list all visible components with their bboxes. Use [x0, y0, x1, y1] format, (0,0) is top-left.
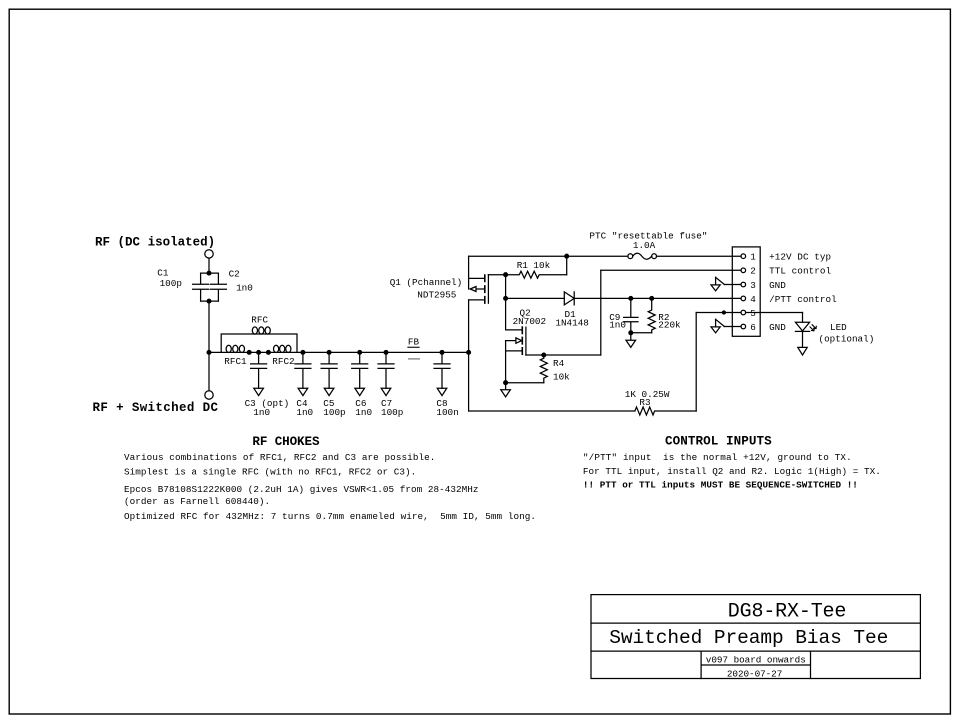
junction ground node Q2: [504, 381, 508, 385]
svg-text:Various combinations of RFC1,: Various combinations of RFC1, RFC2 and C…: [124, 452, 435, 463]
svg-text:RFC: RFC: [251, 315, 268, 326]
capacitor C4: [295, 352, 311, 388]
svg-text:2N7002: 2N7002: [513, 316, 546, 327]
junction R2 tap: [650, 297, 654, 301]
resistor R2: [648, 298, 655, 332]
svg-text:(order as Farnell 608440).: (order as Farnell 608440).: [124, 496, 270, 507]
svg-text:100p: 100p: [323, 407, 345, 418]
svg-text:"/PTT" input is the normal +1: "/PTT" input is the normal +12V, ground …: [583, 452, 852, 463]
svg-text:3: 3: [750, 280, 756, 291]
wire D1 cathode to pin 4: [574, 297, 741, 299]
junction R4 top: [542, 353, 546, 357]
wire pin2 vertical to Q2 gate: [600, 270, 602, 355]
ground C3: [254, 388, 264, 395]
ground C4: [298, 388, 308, 395]
svg-text:!! PTT or TTL inputs MUST BE S: !! PTT or TTL inputs MUST BE SEQUENCE-SW…: [583, 480, 858, 491]
svg-text:R3: R3: [639, 397, 650, 408]
svg-text:v097 board onwards: v097 board onwards: [706, 655, 806, 666]
svg-text:C2: C2: [229, 269, 240, 280]
pin 1: [741, 254, 746, 259]
junction pin 5 wire: [722, 311, 725, 314]
wire PTC to pin 1: [657, 255, 742, 257]
title block outer: [591, 595, 920, 679]
resistor R3: [635, 407, 696, 415]
svg-text:R4: R4: [553, 358, 565, 369]
junction C9 tap: [629, 297, 633, 301]
wire down to RF+DC terminal: [208, 301, 210, 391]
wire Q1 drain down to bus and bottom rail: [468, 300, 470, 411]
junction RFC1 right: [247, 351, 251, 355]
node bottom of C1/C2: [207, 299, 211, 303]
wire Q1 gate rail: [488, 274, 505, 276]
svg-text:1n0: 1n0: [609, 320, 626, 331]
junction RFC2 left: [267, 351, 271, 355]
inductor RFC2: [274, 345, 279, 352]
svg-text:10k: 10k: [553, 372, 570, 383]
wire pin 3 to ground: [724, 284, 741, 286]
inductor RFC: [252, 327, 257, 334]
capacitor C1: [193, 273, 209, 301]
junction C5 tap: [327, 351, 331, 355]
ground C8: [437, 388, 447, 395]
svg-text:1n0: 1n0: [355, 407, 372, 418]
LED (optional): [802, 313, 804, 323]
svg-text:1n0: 1n0: [296, 407, 313, 418]
svg-text:C1: C1: [157, 268, 169, 279]
LED arrows: [810, 327, 814, 331]
svg-text:TTL control: TTL control: [769, 266, 831, 277]
junction gate node top: [504, 273, 508, 277]
junction bus left: [207, 351, 211, 355]
svg-text:100p: 100p: [160, 278, 182, 289]
inductor RFC1: [226, 345, 231, 352]
title block inner cell: [701, 651, 810, 678]
svg-text:Optimized RFC for 432MHz: 7 tu: Optimized RFC for 432MHz: 7 turns 0.7mm …: [124, 511, 536, 522]
svg-text:+12V DC typ: +12V DC typ: [769, 252, 831, 263]
wire RFC bypass bracket: [221, 334, 297, 352]
title block divider 1: [591, 622, 920, 624]
pin 4: [741, 296, 746, 301]
svg-text:220k: 220k: [658, 319, 681, 330]
svg-text:RFC1: RFC1: [224, 356, 247, 367]
svg-text:1N4148: 1N4148: [555, 317, 588, 328]
svg-text:4: 4: [750, 294, 756, 305]
wire pin 5 to LED: [746, 312, 803, 314]
svg-text:Q1 (Pchannel): Q1 (Pchannel): [390, 277, 463, 288]
node top of C1/C2: [207, 271, 211, 275]
svg-text:6: 6: [750, 322, 756, 333]
pin 3: [741, 282, 746, 287]
svg-text:RF (DC isolated): RF (DC isolated): [95, 235, 215, 249]
ground C9/R2: [626, 333, 636, 348]
fuse PTC 1.0A: [628, 254, 633, 259]
ground C7: [381, 388, 391, 395]
capacitor C5: [321, 352, 337, 388]
wire R3 vertical: [695, 313, 697, 412]
junction C4 tap: [301, 351, 305, 355]
ferrite bead FB dash: [409, 358, 420, 360]
svg-text:R1 10k: R1 10k: [517, 260, 551, 271]
capacitor C7: [378, 352, 394, 388]
wire Q2 gate rail: [526, 354, 601, 356]
svg-text:5: 5: [750, 308, 756, 319]
terminal RF + Switched DC: [205, 391, 213, 399]
svg-text:For TTL input, install Q2 and: For TTL input, install Q2 and R2. Logic …: [583, 466, 881, 477]
ground C6: [355, 388, 365, 395]
transistor Q2 2N7002: [506, 298, 523, 330]
junction C6 tap: [358, 351, 362, 355]
svg-text:/PTT control: /PTT control: [769, 294, 837, 305]
resistor R1: [506, 271, 567, 278]
junction C9/R2 ground node: [629, 331, 633, 335]
svg-text:1n0: 1n0: [253, 407, 270, 418]
wire D1 anode: [506, 297, 565, 299]
pin 5: [741, 310, 746, 315]
wire R1 to +12V: [566, 256, 568, 275]
transistor Q1 NDT2955: [468, 256, 470, 289]
wire bottom rail: [469, 410, 635, 412]
wire TTL pin2: [601, 269, 741, 271]
wire gate node vertical: [505, 275, 507, 299]
wire pin 5 left: [696, 312, 741, 314]
ground pin 6: [711, 319, 724, 333]
svg-text:GND: GND: [769, 322, 786, 333]
capacitor C8: [434, 352, 450, 388]
wire parallel bottom: [201, 300, 219, 302]
svg-text:RF + Switched DC: RF + Switched DC: [93, 401, 219, 415]
svg-text:NDT2955: NDT2955: [417, 290, 456, 301]
capacitor C2: [210, 273, 226, 301]
resistor R4: [540, 355, 547, 383]
svg-text:100p: 100p: [381, 407, 403, 418]
wire Q2 source/body to ground: [505, 341, 507, 383]
junction C8 tap: [440, 351, 444, 355]
capacitor C6: [352, 352, 368, 388]
svg-text:1: 1: [750, 252, 756, 263]
junction gate node bottom: [504, 297, 508, 301]
wire parallel top: [201, 272, 219, 274]
svg-text:100n: 100n: [436, 407, 458, 418]
wire pin 6 to ground: [724, 326, 741, 328]
junction R1 top: [565, 254, 569, 258]
svg-text:Epcos B78108S1222K000 (2.2uH 1: Epcos B78108S1222K000 (2.2uH 1A) gives V…: [124, 484, 479, 495]
svg-text:LED: LED: [830, 322, 847, 333]
terminal RF (DC isolated): [205, 250, 213, 258]
junction C7 tap: [384, 351, 388, 355]
capacitor C9: [624, 298, 638, 332]
wire terminal to C1/C2 top node: [208, 258, 210, 273]
svg-text:FB: FB: [408, 337, 420, 348]
wire R2 bottom to ground node: [631, 332, 652, 334]
svg-text:DG8-RX-Tee: DG8-RX-Tee: [728, 601, 847, 624]
wire +12V top rail: [469, 255, 628, 257]
connector box J1: [732, 247, 760, 336]
svg-text:RFC2: RFC2: [272, 356, 294, 367]
svg-text:GND: GND: [769, 280, 786, 291]
diode D1 1N4148: [564, 292, 574, 305]
svg-text:1.0A: 1.0A: [633, 240, 656, 251]
ground Q2: [501, 383, 511, 397]
wire RF bus: [209, 351, 469, 353]
svg-text:2020-07-27: 2020-07-27: [727, 669, 782, 680]
svg-text:(optional): (optional): [819, 334, 875, 345]
pin 6: [741, 324, 746, 329]
ferrite bead FB underline: [408, 346, 419, 348]
svg-text:CONTROL INPUTS: CONTROL INPUTS: [665, 435, 772, 449]
ground pin 3: [711, 277, 724, 291]
junction C3 tap: [257, 351, 261, 355]
capacitor C3: [251, 352, 267, 388]
title block divider 2: [591, 650, 920, 652]
ground LED: [798, 347, 807, 355]
svg-text:Simplest is a single RFC (with: Simplest is a single RFC (with no RFC1, …: [124, 467, 416, 478]
pin 2: [741, 268, 746, 273]
svg-text:1n0: 1n0: [236, 282, 253, 293]
svg-text:2: 2: [750, 266, 756, 277]
svg-text:Switched Preamp Bias Tee: Switched Preamp Bias Tee: [609, 627, 888, 649]
svg-text:RF CHOKES: RF CHOKES: [252, 435, 320, 449]
wire R4 bottom to ground node: [506, 382, 544, 384]
junction bus right / drain node: [467, 351, 471, 355]
ground C5: [324, 388, 334, 395]
